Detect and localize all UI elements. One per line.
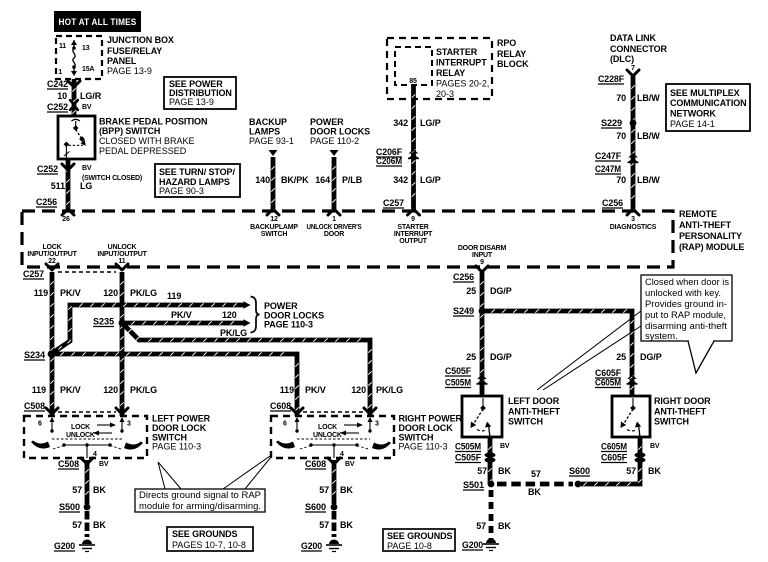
svg-text:PAGE 90-3: PAGE 90-3 bbox=[159, 186, 204, 196]
connector C605F bbox=[595, 368, 622, 378]
dashed wire 57 BK S501 to S600 bbox=[497, 482, 573, 487]
splice S249 bbox=[479, 308, 486, 315]
svg-text:INTERRUPT: INTERRUPT bbox=[436, 58, 487, 68]
connector symbol C605 bbox=[627, 375, 638, 385]
svg-text:S600: S600 bbox=[305, 502, 326, 512]
connector C505M bbox=[445, 378, 471, 388]
svg-text:C505M: C505M bbox=[455, 442, 481, 452]
svg-text:INPUT: INPUT bbox=[472, 252, 493, 259]
wire 119 PK/V to right switch bbox=[51, 352, 299, 416]
svg-text:C247M: C247M bbox=[595, 164, 621, 174]
svg-text:G200: G200 bbox=[54, 541, 75, 551]
svg-text:(DLC): (DLC) bbox=[610, 54, 634, 64]
svg-text:SEE MULTIPLEX: SEE MULTIPLEX bbox=[670, 88, 740, 98]
connector C257 right bbox=[383, 198, 404, 208]
ground G200 left bbox=[54, 541, 75, 551]
svg-text:UNLOCK DRIVER'S: UNLOCK DRIVER'S bbox=[307, 224, 362, 231]
connector C505F bbox=[445, 366, 472, 376]
svg-text:C252: C252 bbox=[37, 164, 58, 174]
svg-text:C242: C242 bbox=[47, 79, 68, 89]
svg-text:342: 342 bbox=[393, 118, 408, 128]
svg-text:JUNCTION BOX: JUNCTION BOX bbox=[107, 35, 174, 45]
svg-text:3: 3 bbox=[631, 216, 635, 223]
wire 120 PK/LG left bbox=[120, 272, 123, 416]
connector C242 bbox=[68, 81, 80, 87]
wire 25 DG/P left bbox=[480, 272, 483, 396]
svg-text:7: 7 bbox=[631, 65, 635, 72]
splice S235 bbox=[119, 320, 126, 327]
wire 119 to power door locks bbox=[51, 303, 244, 354]
svg-text:SWITCH: SWITCH bbox=[508, 417, 543, 427]
svg-text:C256: C256 bbox=[36, 197, 57, 207]
svg-text:C508: C508 bbox=[58, 459, 79, 469]
svg-text:C605M: C605M bbox=[601, 442, 627, 452]
callout directs ground signal bbox=[135, 489, 265, 512]
wire foot at RAP module pin 26 bbox=[62, 209, 74, 215]
svg-text:BACKUPLAMP: BACKUPLAMP bbox=[250, 224, 298, 231]
svg-text:C257: C257 bbox=[383, 198, 404, 208]
svg-text:CLOSED WITH BRAKE: CLOSED WITH BRAKE bbox=[99, 136, 195, 146]
callout closed when door bbox=[641, 275, 732, 341]
svg-text:(RAP) MODULE: (RAP) MODULE bbox=[679, 242, 744, 252]
svg-text:ANTI-THEFT: ANTI-THEFT bbox=[679, 220, 732, 230]
svg-text:C605M: C605M bbox=[595, 378, 621, 388]
svg-text:11: 11 bbox=[119, 258, 126, 265]
svg-text:PK/LG: PK/LG bbox=[130, 385, 157, 395]
callout pointer wedges directs-ground bbox=[158, 456, 271, 489]
svg-text:STARTER: STARTER bbox=[397, 224, 428, 231]
svg-text:G200: G200 bbox=[462, 540, 483, 550]
dashed wire 57 BK S501 to ground bbox=[489, 490, 494, 539]
svg-text:C605F: C605F bbox=[601, 453, 628, 463]
svg-text:120: 120 bbox=[351, 385, 366, 395]
wire 70 LB/W bbox=[631, 76, 634, 211]
connector C256 left bbox=[36, 197, 57, 207]
connector C508 label upper bbox=[24, 401, 45, 411]
svg-text:S249: S249 bbox=[453, 306, 474, 316]
svg-text:DOOR DISARM: DOOR DISARM bbox=[458, 245, 507, 252]
brace to power door locks bbox=[251, 297, 260, 333]
svg-text:RPO: RPO bbox=[497, 38, 516, 48]
svg-text:11: 11 bbox=[59, 43, 66, 50]
svg-text:1: 1 bbox=[58, 69, 62, 76]
svg-text:C256: C256 bbox=[453, 272, 474, 282]
svg-text:57: 57 bbox=[476, 521, 486, 531]
svg-text:LB/W: LB/W bbox=[637, 93, 660, 103]
wire 120 PK/LG to right switch bbox=[122, 323, 372, 416]
svg-text:BK: BK bbox=[93, 520, 106, 530]
svg-text:BK: BK bbox=[340, 520, 353, 530]
svg-text:PK/LG: PK/LG bbox=[376, 385, 403, 395]
connector C252 below BPP bbox=[62, 164, 74, 170]
splice S501 bbox=[488, 481, 495, 488]
svg-text:C608: C608 bbox=[305, 459, 326, 469]
svg-text:LG: LG bbox=[80, 181, 92, 191]
svg-text:S229: S229 bbox=[601, 118, 622, 128]
svg-text:BK: BK bbox=[648, 466, 661, 476]
svg-text:PAGE 110-3: PAGE 110-3 bbox=[264, 320, 313, 330]
svg-text:BV: BV bbox=[500, 443, 510, 450]
splice S234 bbox=[48, 351, 55, 358]
svg-text:REMOTE: REMOTE bbox=[679, 209, 717, 219]
svg-text:1: 1 bbox=[332, 216, 336, 223]
connector C256 right bbox=[602, 198, 623, 208]
svg-text:S235: S235 bbox=[93, 317, 114, 327]
svg-text:6: 6 bbox=[38, 421, 42, 428]
svg-text:PAGE 110-3: PAGE 110-3 bbox=[152, 442, 201, 452]
svg-text:70: 70 bbox=[616, 93, 626, 103]
see grounds note right bbox=[383, 529, 455, 551]
svg-text:57: 57 bbox=[626, 466, 636, 476]
svg-text:3: 3 bbox=[375, 421, 379, 428]
svg-text:BLOCK: BLOCK bbox=[497, 59, 529, 69]
connector C257 left bbox=[23, 269, 44, 279]
svg-text:DIAGNOSTICS: DIAGNOSTICS bbox=[610, 224, 657, 231]
hot-at-all-times banner bbox=[54, 11, 141, 32]
callout tail bbox=[688, 341, 714, 373]
svg-text:PAGE 13-9: PAGE 13-9 bbox=[169, 97, 214, 107]
svg-text:SWITCH: SWITCH bbox=[654, 417, 689, 427]
svg-text:SEE TURN/ STOP/: SEE TURN/ STOP/ bbox=[159, 167, 235, 177]
svg-text:120: 120 bbox=[103, 385, 118, 395]
arrow to backup lamps bbox=[269, 150, 278, 156]
svg-text:BACKUP: BACKUP bbox=[249, 117, 287, 127]
svg-text:12: 12 bbox=[270, 216, 278, 223]
RPO relay block bbox=[387, 38, 492, 99]
svg-text:RIGHT POWER: RIGHT POWER bbox=[399, 414, 463, 424]
connector flare C608 pin 3 bbox=[364, 408, 376, 414]
connector C608 label upper bbox=[270, 401, 291, 411]
connector flare C608 pin 6 bbox=[291, 408, 303, 414]
BPP switch contacts bbox=[64, 119, 86, 158]
connector symbol C505 bbox=[477, 375, 488, 385]
connector symbol C505 lower bbox=[485, 452, 496, 462]
dashed wire 57 BK S600 to G200 bbox=[332, 511, 337, 537]
svg-text:COMMUNICATION: COMMUNICATION bbox=[670, 98, 747, 108]
svg-text:STARTER: STARTER bbox=[436, 47, 478, 57]
svg-text:PEDAL DEPRESSED: PEDAL DEPRESSED bbox=[99, 146, 187, 156]
svg-text:FUSE/RELAY: FUSE/RELAY bbox=[107, 46, 162, 56]
svg-text:DG/P: DG/P bbox=[640, 352, 662, 362]
connector C505F lower bbox=[455, 453, 482, 463]
left switch interior bbox=[31, 417, 143, 458]
connector C206F bbox=[376, 147, 403, 157]
svg-text:UNLOCK: UNLOCK bbox=[66, 432, 95, 439]
svg-text:ANTI-THEFT: ANTI-THEFT bbox=[654, 407, 707, 417]
connector C508 below switch bbox=[81, 458, 93, 464]
connector C252 bbox=[70, 100, 78, 110]
svg-text:system.: system. bbox=[645, 331, 678, 342]
svg-text:LB/W: LB/W bbox=[637, 175, 660, 185]
connector C247M bbox=[595, 164, 621, 174]
svg-text:SEE GROUNDS: SEE GROUNDS bbox=[172, 529, 238, 539]
svg-text:119: 119 bbox=[34, 288, 48, 298]
svg-text:C228F: C228F bbox=[598, 74, 625, 84]
svg-text:C505F: C505F bbox=[455, 453, 482, 463]
svg-text:DG/P: DG/P bbox=[490, 286, 512, 296]
svg-text:BK: BK bbox=[528, 487, 541, 497]
svg-text:S500: S500 bbox=[59, 502, 80, 512]
svg-text:SWITCH: SWITCH bbox=[261, 231, 288, 238]
svg-text:PAGES 20-2,: PAGES 20-2, bbox=[436, 79, 489, 89]
svg-text:PANEL: PANEL bbox=[107, 56, 137, 66]
connector C505M lower bbox=[455, 442, 481, 452]
svg-text:unlocked with key.: unlocked with key. bbox=[645, 288, 721, 299]
svg-text:13: 13 bbox=[82, 45, 90, 52]
svg-text:S600: S600 bbox=[569, 466, 590, 476]
svg-text:LAMPS: LAMPS bbox=[249, 127, 280, 137]
svg-text:LOCK: LOCK bbox=[42, 244, 61, 251]
connector C247F bbox=[595, 151, 622, 161]
svg-text:INPUT/OUTPUT: INPUT/OUTPUT bbox=[97, 251, 147, 258]
connector flare pin 22 bbox=[46, 264, 58, 270]
connector C605M lower bbox=[601, 442, 627, 452]
svg-text:C505F: C505F bbox=[445, 366, 472, 376]
svg-text:C247F: C247F bbox=[595, 151, 622, 161]
svg-text:119: 119 bbox=[32, 385, 46, 395]
svg-text:Directs ground signal to RAP: Directs ground signal to RAP bbox=[139, 490, 261, 501]
splice S600 door lock bbox=[331, 504, 338, 511]
see power distribution note bbox=[164, 77, 236, 109]
connector C206M bbox=[376, 156, 402, 166]
callout pointer lines closed-when-door bbox=[537, 311, 641, 390]
svg-text:70: 70 bbox=[616, 175, 626, 185]
svg-text:9: 9 bbox=[411, 216, 415, 223]
svg-text:BK: BK bbox=[340, 485, 353, 495]
connector C605M bbox=[595, 378, 621, 388]
fuse 15A bbox=[71, 40, 77, 76]
svg-text:57: 57 bbox=[531, 469, 541, 479]
svg-text:C605F: C605F bbox=[595, 368, 622, 378]
wire foot at RAP pin 12 bbox=[267, 209, 279, 215]
svg-text:BK: BK bbox=[498, 521, 511, 531]
svg-text:119: 119 bbox=[167, 291, 181, 301]
dashed wire 57 BK S500 to G200 bbox=[85, 511, 90, 537]
wire 57 BK right switch ground bbox=[332, 460, 335, 504]
svg-text:BK/PK: BK/PK bbox=[281, 175, 309, 185]
svg-text:put to RAP module,: put to RAP module, bbox=[645, 310, 726, 321]
svg-text:C508: C508 bbox=[24, 401, 45, 411]
svg-text:10: 10 bbox=[57, 91, 67, 101]
svg-text:UNLOCK: UNLOCK bbox=[313, 432, 342, 439]
svg-text:PAGE 10-8: PAGE 10-8 bbox=[387, 541, 432, 551]
right anti-theft switch contact bbox=[621, 398, 642, 438]
svg-text:9: 9 bbox=[480, 259, 484, 266]
svg-text:PAGE 93-1: PAGE 93-1 bbox=[249, 136, 294, 146]
svg-text:70: 70 bbox=[616, 131, 626, 141]
svg-text:LG/R: LG/R bbox=[80, 91, 102, 101]
svg-text:C252: C252 bbox=[47, 102, 68, 112]
svg-text:PAGE 14-1: PAGE 14-1 bbox=[670, 119, 715, 129]
svg-text:PAGE 110-2: PAGE 110-2 bbox=[310, 136, 359, 146]
svg-text:NETWORK: NETWORK bbox=[670, 109, 716, 119]
wire 342 LG/P bbox=[412, 85, 415, 211]
svg-text:25: 25 bbox=[466, 286, 476, 296]
svg-text:INPUT/OUTPUT: INPUT/OUTPUT bbox=[27, 251, 77, 258]
dashed connector link C257 bbox=[58, 271, 116, 273]
svg-text:LB/W: LB/W bbox=[637, 131, 660, 141]
wire 57 BK left switch ground bbox=[85, 460, 88, 504]
svg-text:511: 511 bbox=[51, 181, 65, 191]
svg-text:LOCK: LOCK bbox=[318, 424, 337, 431]
brake pedal position switch bbox=[58, 116, 95, 159]
svg-text:140: 140 bbox=[255, 175, 270, 185]
svg-text:BK: BK bbox=[498, 466, 511, 476]
remote anti-theft personality RAP module bbox=[22, 211, 673, 267]
junction box fuse/relay panel bbox=[56, 36, 102, 79]
svg-text:P/LB: P/LB bbox=[342, 175, 363, 185]
wire 120 to power door locks bbox=[122, 321, 244, 324]
connector symbol C247 bbox=[628, 153, 639, 163]
svg-text:LEFT DOOR: LEFT DOOR bbox=[508, 396, 560, 406]
wire 57 BK below left anti-theft switch bbox=[488, 437, 491, 484]
svg-text:15A: 15A bbox=[82, 66, 94, 73]
connector symbol C206 bbox=[408, 149, 419, 159]
svg-text:UNLOCK: UNLOCK bbox=[108, 244, 137, 251]
svg-text:DOOR LOCK: DOOR LOCK bbox=[399, 423, 454, 433]
svg-text:PAGES 10-7, 10-8: PAGES 10-7, 10-8 bbox=[172, 540, 246, 550]
connector flare C508 pin 6 bbox=[46, 408, 58, 414]
splice S229 bbox=[630, 120, 637, 127]
svg-text:57: 57 bbox=[477, 466, 487, 476]
svg-text:G200: G200 bbox=[301, 541, 322, 551]
wire 511 LG bbox=[66, 159, 69, 211]
svg-text:BV: BV bbox=[82, 104, 92, 111]
wire 25 DG/P to right door bbox=[482, 309, 634, 396]
svg-text:3: 3 bbox=[127, 421, 131, 428]
svg-text:PK/V: PK/V bbox=[60, 385, 81, 395]
svg-text:BK: BK bbox=[93, 485, 106, 495]
svg-text:DG/P: DG/P bbox=[490, 352, 512, 362]
connector flare pin 11 bbox=[116, 264, 128, 270]
svg-text:S234: S234 bbox=[24, 350, 45, 360]
svg-text:INTERRUPT: INTERRUPT bbox=[394, 231, 433, 238]
svg-text:C257: C257 bbox=[23, 269, 44, 279]
connector flare C508 pin 3 bbox=[116, 408, 128, 414]
connector flare door disarm bbox=[476, 266, 488, 272]
svg-text:164: 164 bbox=[315, 175, 330, 185]
svg-text:ANTI-THEFT: ANTI-THEFT bbox=[508, 407, 561, 417]
svg-text:25: 25 bbox=[616, 352, 626, 362]
dashed connector link C608 bbox=[303, 411, 364, 413]
wire foot at RAP pin 1 bbox=[328, 209, 340, 215]
connector symbol C605 lower bbox=[635, 452, 646, 462]
svg-text:LEFT POWER: LEFT POWER bbox=[152, 414, 211, 424]
svg-text:HOT AT ALL TIMES: HOT AT ALL TIMES bbox=[59, 17, 137, 27]
right power door lock switch bbox=[271, 416, 394, 458]
splice S500 bbox=[84, 504, 91, 511]
svg-text:26: 26 bbox=[62, 216, 70, 223]
svg-text:342: 342 bbox=[393, 175, 408, 185]
ground G200 anti-theft bbox=[462, 540, 483, 550]
splice S600 anti-theft bbox=[575, 481, 582, 488]
right switch interior bbox=[276, 417, 391, 458]
svg-text:POWER: POWER bbox=[264, 301, 298, 311]
connector C228F bbox=[627, 70, 639, 76]
see grounds note left bbox=[167, 527, 253, 551]
svg-text:119: 119 bbox=[280, 385, 294, 395]
svg-text:RELAY: RELAY bbox=[436, 68, 465, 78]
right door anti-theft switch bbox=[612, 396, 650, 437]
svg-text:DATA LINK: DATA LINK bbox=[610, 33, 657, 43]
svg-text:Provides ground in-: Provides ground in- bbox=[645, 299, 727, 310]
svg-text:OUTPUT: OUTPUT bbox=[399, 238, 428, 245]
svg-text:120: 120 bbox=[103, 288, 118, 298]
svg-text:BV: BV bbox=[82, 165, 92, 172]
wire 140 BK/PK bbox=[271, 157, 274, 211]
see turn stop hazard lamps note bbox=[155, 164, 240, 197]
svg-text:PK/LG: PK/LG bbox=[220, 328, 247, 338]
svg-text:PK/V: PK/V bbox=[171, 310, 192, 320]
arrow 119 to power door locks bbox=[244, 301, 251, 309]
connector C256 door disarm bbox=[453, 272, 474, 282]
arrow 120 to power door locks bbox=[244, 319, 251, 327]
svg-text:C256: C256 bbox=[602, 198, 623, 208]
svg-text:57: 57 bbox=[319, 520, 329, 530]
svg-text:LOCK: LOCK bbox=[71, 424, 90, 431]
connector C605F lower bbox=[601, 453, 628, 463]
svg-text:DOOR LOCK: DOOR LOCK bbox=[152, 423, 207, 433]
svg-text:57: 57 bbox=[72, 485, 82, 495]
wire foot at RAP pin 9 bbox=[408, 209, 420, 215]
svg-text:SEE GROUNDS: SEE GROUNDS bbox=[387, 531, 453, 541]
svg-text:DOOR: DOOR bbox=[324, 231, 344, 238]
svg-text:RELAY: RELAY bbox=[497, 49, 526, 59]
svg-text:PK/V: PK/V bbox=[60, 288, 81, 298]
svg-text:RIGHT DOOR: RIGHT DOOR bbox=[654, 396, 711, 406]
svg-text:C206M: C206M bbox=[376, 156, 402, 166]
svg-text:PAGE 110-3: PAGE 110-3 bbox=[399, 442, 448, 452]
wire 57 BK below right anti-theft switch bbox=[581, 437, 642, 486]
svg-text:(BPP) SWITCH: (BPP) SWITCH bbox=[99, 126, 160, 136]
svg-text:85: 85 bbox=[409, 78, 417, 85]
svg-text:20-3: 20-3 bbox=[436, 89, 454, 99]
svg-text:57: 57 bbox=[319, 485, 329, 495]
see multiplex communication note bbox=[666, 84, 750, 131]
ground G200 right bbox=[301, 541, 322, 551]
svg-text:CONNECTOR: CONNECTOR bbox=[610, 44, 668, 54]
wire fuse to BPP switch bbox=[72, 79, 75, 116]
svg-text:BV: BV bbox=[345, 461, 355, 468]
starter interrupt relay bbox=[395, 47, 432, 85]
wire foot at RAP pin 3 bbox=[627, 209, 639, 215]
svg-text:S501: S501 bbox=[463, 480, 484, 490]
arrow to power door locks bbox=[330, 150, 339, 156]
svg-text:PAGE 13-9: PAGE 13-9 bbox=[107, 66, 152, 76]
svg-text:BV: BV bbox=[650, 443, 660, 450]
dashed connector link C508 bbox=[58, 411, 116, 413]
svg-text:57: 57 bbox=[72, 520, 82, 530]
svg-text:C608: C608 bbox=[270, 401, 291, 411]
connector C608 below switch bbox=[328, 458, 340, 464]
svg-text:PERSONALITY: PERSONALITY bbox=[679, 231, 742, 241]
svg-text:PK/LG: PK/LG bbox=[130, 288, 157, 298]
svg-text:Closed when door is: Closed when door is bbox=[645, 277, 729, 288]
svg-text:LG/P: LG/P bbox=[420, 175, 441, 185]
left anti-theft switch contact bbox=[471, 398, 492, 438]
svg-text:BRAKE PEDAL POSITION: BRAKE PEDAL POSITION bbox=[99, 117, 207, 127]
wire 164 P/LB bbox=[332, 157, 335, 211]
svg-text:120: 120 bbox=[222, 310, 237, 320]
svg-text:LG/P: LG/P bbox=[420, 118, 441, 128]
svg-text:6: 6 bbox=[283, 421, 287, 428]
svg-text:module for arming/disarming.: module for arming/disarming. bbox=[139, 501, 261, 512]
svg-text:22: 22 bbox=[48, 258, 56, 265]
svg-text:25: 25 bbox=[466, 352, 476, 362]
svg-text:PK/V: PK/V bbox=[305, 385, 326, 395]
svg-text:POWER: POWER bbox=[310, 117, 344, 127]
wire 119 PK/V left bbox=[50, 272, 53, 416]
